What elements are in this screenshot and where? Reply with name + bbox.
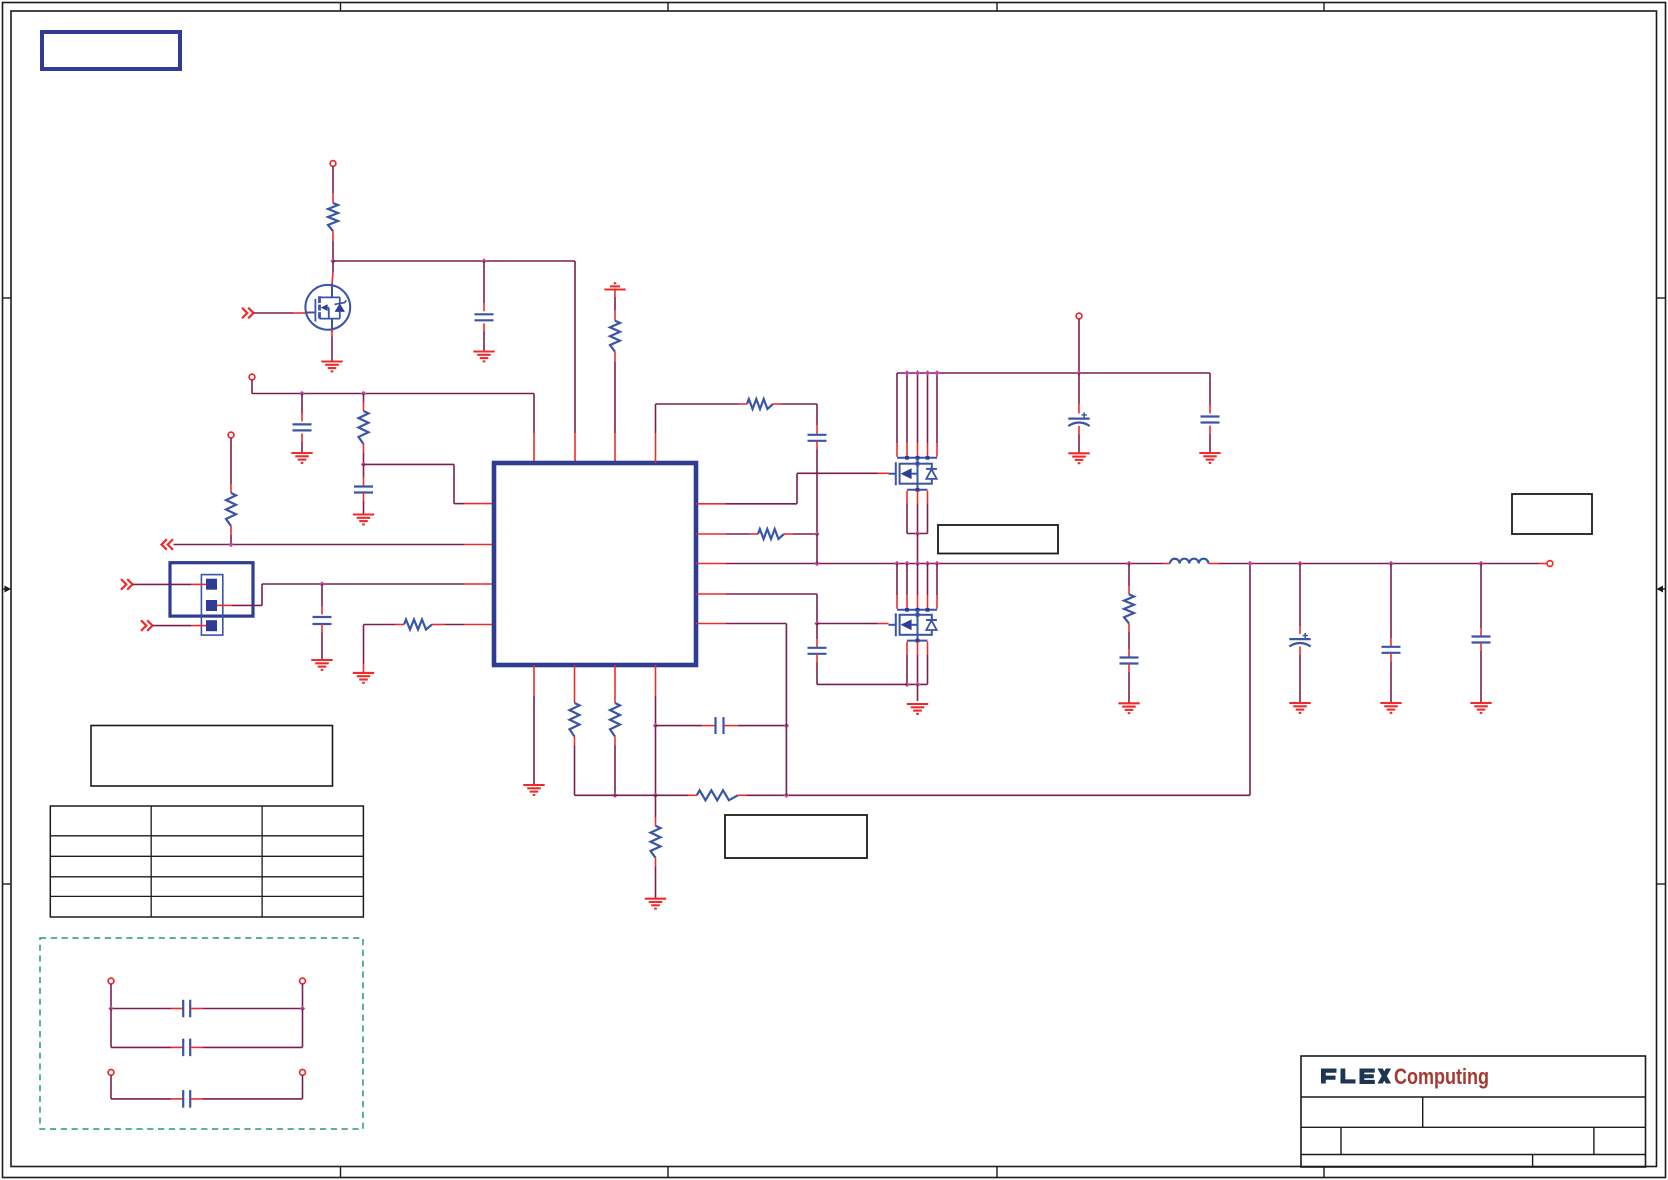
junction xyxy=(934,561,939,566)
transistor Q2 (high-side) xyxy=(889,456,938,485)
capacitor C15 xyxy=(183,1039,190,1057)
wire xyxy=(232,584,464,605)
pin stub xyxy=(395,624,404,626)
pin stub xyxy=(1078,404,1080,414)
wire xyxy=(1128,632,1130,649)
wire xyxy=(655,795,657,817)
pin stub xyxy=(696,563,726,565)
wire xyxy=(174,544,465,546)
junction xyxy=(814,561,819,566)
ground xyxy=(523,785,544,795)
wire xyxy=(302,984,304,1008)
pin stub xyxy=(171,1098,183,1100)
wire xyxy=(866,472,878,474)
wire xyxy=(1078,373,1080,404)
wire xyxy=(614,362,616,433)
port VIN xyxy=(1076,313,1082,319)
junction xyxy=(784,723,789,728)
wire xyxy=(816,624,818,640)
wire xyxy=(655,696,657,726)
label box (high-side) xyxy=(938,525,1058,554)
junction xyxy=(904,370,909,375)
wire xyxy=(917,684,919,701)
pin stub xyxy=(1390,653,1392,662)
port P1 xyxy=(330,161,336,167)
wire xyxy=(726,624,786,796)
pin stub xyxy=(614,665,616,696)
pin stub xyxy=(1164,563,1170,565)
wire xyxy=(363,394,365,403)
wire xyxy=(655,726,657,796)
pin stub xyxy=(773,403,782,405)
wire xyxy=(1128,564,1130,587)
junction xyxy=(915,561,920,566)
ground xyxy=(1380,703,1401,713)
connector J1 xyxy=(170,563,253,635)
wire xyxy=(301,442,303,454)
capacitor C2 xyxy=(293,424,312,430)
pin stub xyxy=(655,817,657,826)
junction xyxy=(228,542,233,547)
pin stub xyxy=(171,1046,183,1048)
pin stub xyxy=(533,665,535,696)
pin stub xyxy=(1480,628,1482,637)
ground xyxy=(1118,703,1139,713)
capacitor C1 xyxy=(475,314,494,320)
pin stub xyxy=(230,526,232,535)
wire xyxy=(364,464,465,503)
junction xyxy=(653,723,658,728)
pin stub xyxy=(363,493,365,502)
resistor R5 xyxy=(404,620,432,630)
capacitor C13 xyxy=(1472,637,1491,643)
wire xyxy=(1209,434,1211,453)
port VOUT xyxy=(1547,561,1553,567)
pin stub xyxy=(574,433,576,463)
wire xyxy=(1078,435,1080,454)
pin stub xyxy=(191,583,206,585)
port (pin3 in) xyxy=(141,620,153,631)
wire (VIN rail) xyxy=(897,372,1210,374)
pin stub xyxy=(696,533,726,535)
pin stub xyxy=(332,193,334,203)
pin stub xyxy=(750,533,758,535)
wire xyxy=(574,261,576,433)
junction xyxy=(108,1006,113,1011)
capacitor C7 xyxy=(808,648,827,654)
pin stub xyxy=(483,303,485,311)
resistor R12 xyxy=(1124,594,1134,623)
wire xyxy=(203,1008,303,1010)
wire xyxy=(1128,672,1130,703)
pin stub xyxy=(696,623,726,625)
wire xyxy=(655,867,657,899)
wire xyxy=(111,1009,303,1048)
wire xyxy=(111,1046,171,1048)
pin stub xyxy=(1209,405,1211,414)
wire xyxy=(1209,373,1211,405)
wire xyxy=(533,696,535,785)
pin stub xyxy=(321,606,323,615)
resistor R2 xyxy=(610,321,620,352)
wire xyxy=(738,725,786,727)
wire xyxy=(1299,564,1301,627)
capacitor C4 xyxy=(313,617,332,624)
pin stub xyxy=(878,623,889,625)
pin stub xyxy=(816,425,818,434)
ground xyxy=(311,660,332,670)
ground xyxy=(907,704,928,714)
pin stub xyxy=(190,1008,203,1010)
wire xyxy=(866,623,878,625)
wire xyxy=(321,633,323,661)
wire xyxy=(230,535,232,545)
wire xyxy=(363,464,365,477)
wire xyxy=(817,623,866,625)
pin stub xyxy=(1209,426,1211,435)
wire xyxy=(111,1076,303,1099)
resistor R6 xyxy=(570,703,580,737)
junction xyxy=(814,531,819,536)
port (gate input) xyxy=(242,308,254,319)
wire (Q2 source bundle) xyxy=(907,484,928,534)
pin stub xyxy=(464,544,494,546)
resistor R8 xyxy=(697,790,738,800)
capacitor C9 xyxy=(1201,417,1220,423)
label box (output) xyxy=(1512,494,1592,534)
pin stub xyxy=(230,484,232,493)
pin stub xyxy=(739,403,747,405)
pin stub xyxy=(816,441,818,450)
wire xyxy=(332,241,334,261)
svg-text:Computing: Computing xyxy=(1394,1064,1489,1089)
wire xyxy=(533,394,535,434)
pin stub xyxy=(738,794,747,796)
wire xyxy=(252,380,534,393)
wire xyxy=(1390,564,1392,639)
pin stub xyxy=(533,433,535,463)
transistor Q1 xyxy=(305,284,350,332)
resistor R7 xyxy=(610,703,620,737)
capacitor C11 xyxy=(1289,633,1310,647)
wire xyxy=(332,167,334,193)
pin stub xyxy=(1299,626,1301,634)
junction xyxy=(1076,370,1081,375)
pin stub xyxy=(1128,623,1130,632)
pin stub xyxy=(816,654,818,663)
junction xyxy=(1247,561,1252,566)
junction xyxy=(904,561,909,566)
optional components box xyxy=(40,938,363,1129)
capacitor C12 xyxy=(1382,647,1401,653)
pin stub xyxy=(464,624,494,626)
wire (Q2 drain bundle) xyxy=(897,373,937,457)
wire xyxy=(203,1046,303,1048)
port P5 xyxy=(300,978,306,984)
capacitor C10 xyxy=(1120,658,1139,664)
pin stub xyxy=(321,624,323,633)
pin stub xyxy=(574,696,576,703)
wire (VOUT rail) xyxy=(1219,563,1539,565)
pin stub xyxy=(655,665,657,696)
junction xyxy=(915,531,920,536)
pin stub xyxy=(574,665,576,696)
pin stub xyxy=(655,858,657,867)
transistor Q3 (low-side) xyxy=(889,608,938,636)
ground xyxy=(353,515,374,525)
pin stub xyxy=(293,312,306,314)
pin stub xyxy=(464,503,494,505)
IC U1 xyxy=(494,463,696,665)
junction xyxy=(330,258,335,263)
wire xyxy=(364,625,396,665)
wire xyxy=(817,663,907,685)
pin stub xyxy=(190,1098,203,1100)
pin stub xyxy=(363,664,365,673)
wire xyxy=(614,297,616,311)
pin stub xyxy=(614,352,616,362)
junction xyxy=(361,462,366,467)
wire xyxy=(332,261,334,272)
wire (feedback riser) xyxy=(1249,564,1251,796)
wire xyxy=(726,594,817,624)
wire xyxy=(1390,661,1392,703)
pin stub xyxy=(432,624,445,626)
junction xyxy=(784,793,789,798)
ground xyxy=(473,352,494,362)
resistor R11 xyxy=(758,529,784,539)
resistor R1 xyxy=(328,203,338,231)
wire xyxy=(153,625,192,627)
wire xyxy=(782,404,817,425)
wire xyxy=(363,501,365,515)
wire xyxy=(333,260,575,262)
pin stub xyxy=(217,604,232,606)
wire xyxy=(1299,655,1301,703)
port P6 xyxy=(108,1070,114,1076)
ground xyxy=(291,453,312,463)
wire xyxy=(111,1098,171,1100)
resistor R9 xyxy=(651,826,661,858)
pin stub xyxy=(1390,638,1392,647)
wire xyxy=(575,794,689,796)
junction xyxy=(1297,561,1302,566)
pin stub xyxy=(696,503,726,505)
pin stub xyxy=(1128,586,1130,594)
junction xyxy=(300,1006,305,1011)
ground (flipped) xyxy=(604,283,625,289)
wire xyxy=(793,533,817,535)
wire xyxy=(574,746,576,796)
wire (Q3 drain bundle) xyxy=(897,564,937,609)
wire (switch node) xyxy=(726,563,1164,565)
wire xyxy=(321,584,323,606)
pin stub xyxy=(301,433,303,441)
junction xyxy=(934,370,939,375)
wire xyxy=(111,1008,171,1010)
pin stub xyxy=(696,593,726,595)
port (net in) xyxy=(162,539,174,550)
notes box xyxy=(91,726,333,787)
wire xyxy=(1480,651,1482,703)
pin stub xyxy=(363,402,365,411)
pin stub xyxy=(1480,643,1482,652)
wire xyxy=(816,450,818,535)
inductor L1 xyxy=(1170,559,1208,564)
wire xyxy=(747,794,1251,796)
wire xyxy=(917,534,919,564)
ground xyxy=(1068,453,1089,463)
pin stub xyxy=(816,639,818,648)
wire (Q3 source bundle) xyxy=(907,635,928,685)
wire xyxy=(656,725,703,727)
wire xyxy=(301,394,303,414)
sheet title box xyxy=(42,32,180,69)
wire xyxy=(483,261,485,303)
capacitor C5 xyxy=(716,717,724,734)
junction xyxy=(1388,561,1393,566)
ground xyxy=(1470,703,1491,713)
pin stub xyxy=(301,413,303,421)
junction xyxy=(814,621,819,626)
pin stub xyxy=(190,1046,203,1048)
wire xyxy=(816,534,818,564)
junction xyxy=(612,793,617,798)
junction xyxy=(894,561,899,566)
pin stub xyxy=(1128,664,1130,673)
resistor R3 xyxy=(359,411,369,444)
pin stub xyxy=(1078,426,1080,435)
wire xyxy=(110,984,112,1008)
resistor R10 xyxy=(747,399,773,409)
capacitor C3 xyxy=(354,487,373,493)
wire xyxy=(614,746,616,796)
wire xyxy=(483,332,485,352)
pin stub xyxy=(655,433,657,463)
pin stub xyxy=(1208,563,1218,565)
pin stub xyxy=(171,1008,183,1010)
wire xyxy=(203,1098,303,1100)
pin stub xyxy=(1539,563,1547,565)
capacitor C8 xyxy=(1068,412,1089,426)
junction xyxy=(361,391,366,396)
junction xyxy=(915,370,920,375)
ground xyxy=(645,899,666,909)
logo FLEX Computing xyxy=(1321,1064,1489,1089)
pin stub xyxy=(724,725,739,727)
junction xyxy=(481,258,486,263)
pin stub xyxy=(614,737,616,746)
pin stub xyxy=(574,737,576,746)
wire xyxy=(254,312,294,314)
wire xyxy=(230,438,232,484)
pin stub xyxy=(363,478,365,487)
pin stub xyxy=(1128,649,1130,658)
port (pin1 in) xyxy=(121,579,133,590)
wire xyxy=(1480,564,1482,629)
label box (feedback) xyxy=(725,815,867,858)
resistor R4 xyxy=(226,493,236,526)
junction xyxy=(299,391,304,396)
pin stub xyxy=(1299,647,1301,656)
pin stub xyxy=(363,444,365,453)
pin stub xyxy=(191,625,206,627)
pin stub xyxy=(332,272,333,284)
wire xyxy=(133,583,192,585)
wire xyxy=(726,473,866,504)
port P4 xyxy=(108,978,114,984)
ground xyxy=(353,673,374,683)
pin stub xyxy=(614,311,616,321)
title block xyxy=(1301,1056,1646,1167)
pin stub xyxy=(784,533,793,535)
ground xyxy=(1289,703,1310,713)
pin stub xyxy=(688,794,697,796)
capacitor C6 xyxy=(808,435,827,441)
junction xyxy=(319,581,324,586)
junction xyxy=(653,793,658,798)
wire xyxy=(1078,319,1080,373)
junction xyxy=(1126,561,1131,566)
capacitor C14 xyxy=(183,1000,190,1018)
pin stub xyxy=(878,472,889,474)
revision table xyxy=(50,806,363,917)
pin stub xyxy=(614,433,616,463)
junction xyxy=(925,561,930,566)
capacitor C16 xyxy=(183,1090,190,1108)
junction xyxy=(915,682,920,687)
pin stub xyxy=(702,725,716,727)
ground xyxy=(321,362,342,372)
port P2 xyxy=(249,374,255,380)
pin stub xyxy=(483,323,485,331)
wire xyxy=(656,404,739,433)
wire xyxy=(363,453,365,464)
junction xyxy=(925,370,930,375)
pin stub xyxy=(614,290,616,298)
wire xyxy=(726,533,750,535)
wire xyxy=(445,624,464,626)
junction xyxy=(1478,561,1483,566)
port P3 xyxy=(228,432,234,438)
pin stub xyxy=(332,231,334,241)
wire xyxy=(331,330,333,362)
pin stub xyxy=(464,583,494,585)
ground xyxy=(1199,453,1220,463)
junction xyxy=(904,682,909,687)
port P7 xyxy=(300,1070,306,1076)
pin stub xyxy=(614,696,616,703)
